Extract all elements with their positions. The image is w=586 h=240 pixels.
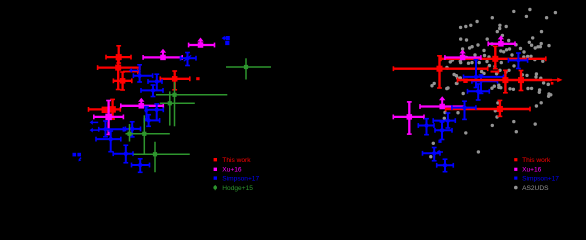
blue x-upper-limit arrow above D [129, 68, 138, 73]
blue point B5 right [452, 101, 476, 119]
svg-text:Simpson+17: Simpson+17 [522, 175, 559, 182]
data point red R4b [518, 71, 524, 91]
magenta limit point S [143, 49, 182, 60]
blue point D [133, 65, 152, 82]
blue point B12 right [423, 148, 441, 161]
svg-text:Xu+16: Xu+16 [222, 167, 242, 174]
blue point B1 right [508, 53, 527, 69]
data point red R6 right panel [446, 100, 530, 116]
data point red R4a [502, 70, 508, 93]
green point M2g [127, 115, 170, 154]
magenta point G [94, 101, 124, 135]
blue point L2 [144, 115, 159, 127]
AS2UDS gray dots field [429, 8, 557, 159]
legend right panel [514, 157, 559, 192]
blue point F2 [141, 85, 163, 97]
red small square right of D2 [196, 77, 199, 80]
data point red F left panel [89, 99, 121, 119]
blue point B3 right [418, 119, 434, 135]
blue point P [113, 145, 133, 163]
red short bar segment [491, 70, 499, 74]
blue x-upper-limit arrow 1 [90, 120, 99, 125]
blue pair glyph bottom left with diagonal arrow [73, 153, 82, 162]
blue point B14 right [468, 84, 490, 100]
magenta point M3 right [393, 102, 424, 134]
blue point B15 right [472, 75, 498, 93]
red small marker on R4 bar [463, 79, 467, 83]
blue point T2 [181, 53, 197, 66]
green point N [133, 142, 189, 173]
blue point L1 [146, 104, 164, 120]
magenta limit point M2 right [445, 50, 481, 61]
blue point B10 right [437, 159, 454, 172]
blue point W [132, 159, 150, 173]
red x-lower-limit arrow [123, 69, 141, 75]
svg-text:Xu+16: Xu+16 [522, 167, 542, 174]
blue point J [122, 122, 141, 137]
green point G3 [160, 91, 195, 125]
svg-text:This work: This work [222, 157, 251, 164]
red R4 long bar with right arrow [458, 78, 563, 83]
svg-text:Hodge+15: Hodge+15 [222, 185, 253, 192]
blue x-upper-limit arrow 2 [90, 128, 99, 133]
data point red R1 right panel [393, 56, 487, 88]
blue tiny square right [438, 140, 441, 143]
svg-text:This work: This work [522, 157, 551, 164]
magenta limit point U [189, 38, 215, 48]
blue point B2 right [464, 60, 504, 88]
green point M1g [126, 124, 151, 142]
svg-text:AS2UDS: AS2UDS [522, 185, 549, 192]
data point red B left panel [98, 60, 140, 90]
svg-text:Simpson+17: Simpson+17 [222, 175, 259, 182]
blue point K [96, 131, 121, 152]
blue point B4 right [433, 113, 455, 128]
blue point I [99, 121, 124, 137]
blue pair marker V with left arrow [222, 36, 230, 45]
data point red F2 second marker [102, 107, 108, 113]
blue left arrow right panel [437, 150, 444, 155]
data point red D2 left panel [160, 71, 190, 90]
data point red A left panel [106, 46, 131, 63]
blue point L0 small [144, 107, 149, 119]
magenta limit point M1 right [488, 35, 515, 46]
blue point B7 right [435, 122, 452, 140]
magenta limit point M4 right [420, 96, 465, 109]
red small blob [551, 82, 554, 85]
data point red R0 right panel [441, 46, 546, 68]
green point G2 [156, 82, 227, 126]
data point red C left panel [113, 72, 131, 90]
legend left panel [213, 157, 259, 192]
blue point E [148, 74, 162, 90]
green point G1 [226, 58, 271, 79]
magenta limit point H [121, 98, 164, 109]
